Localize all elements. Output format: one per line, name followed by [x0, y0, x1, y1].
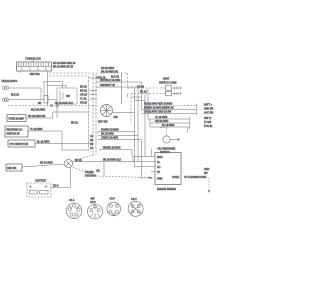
svg-text:BK 18: BK 18 — [80, 86, 87, 89]
relay box C — [8, 140, 35, 147]
svg-text:BK 16 AWG BK 18: BK 16 AWG BK 18 — [53, 66, 74, 69]
relay box B — [5, 126, 28, 137]
svg-text:TO CHASSIS HARN: TO CHASSIS HARN — [184, 176, 206, 179]
bus wire 5 — [150, 121, 190, 125]
svg-text:AMP 30A: AMP 30A — [30, 73, 41, 76]
splice bubbles — [50, 104, 58, 106]
svg-text:BATT +: BATT + — [204, 104, 213, 107]
svg-text:ST: ST — [157, 171, 161, 174]
svg-text:OR/BK 18 AWG: OR/BK 18 AWG — [101, 137, 118, 140]
svg-text:GND BK: GND BK — [7, 167, 17, 170]
marks below key switch — [98, 121, 108, 124]
right trunk vertical x134.5 — [134, 89, 136, 167]
label ground stud — [85, 171, 96, 178]
right trunk vertical x148 — [147, 89, 149, 120]
svg-text:FUSE BLOCK: FUSE BLOCK — [26, 58, 42, 61]
label ground wire — [40, 162, 53, 165]
trunk drop to ground — [72, 155, 94, 161]
label wire box C — [37, 141, 50, 144]
label wire C seat — [137, 86, 147, 94]
svg-text:RD 18: RD 18 — [80, 90, 87, 93]
wire box C — [35, 143, 93, 145]
mid wire 3 — [98, 140, 142, 178]
U1 pin 5 dashed — [140, 177, 153, 179]
svg-text:C1 A: C1 A — [69, 199, 75, 202]
connector C3 — [107, 202, 121, 216]
mid wire 2 — [98, 135, 138, 137]
bus wire 1 — [145, 104, 197, 108]
interlock relay K1 — [44, 96, 48, 104]
U1 pin 2 — [138, 161, 161, 164]
U1 pin 4 — [151, 171, 161, 174]
svg-text:AC: AC — [157, 166, 161, 169]
svg-text:BL 18 AWG: BL 18 AWG — [37, 141, 50, 144]
U1 internal label — [172, 176, 179, 179]
headlights label — [2, 80, 18, 83]
U1 top hook — [151, 149, 153, 157]
svg-text:OR 18: OR 18 — [80, 94, 88, 97]
wire from J1 down — [47, 71, 49, 106]
dashed ground branch — [73, 167, 150, 178]
svg-text:KIT: KIT — [204, 172, 208, 175]
svg-text:REVERSE CA: REVERSE CA — [7, 129, 23, 132]
bus 6 stub down — [187, 127, 189, 133]
svg-text:MAG: MAG — [157, 156, 163, 159]
svg-text:CODE: CODE — [172, 176, 179, 179]
trunk pin labels upper — [80, 86, 88, 105]
label battery — [36, 180, 47, 183]
svg-text:RD/WH 18 AWG: RD/WH 18 AWG — [101, 129, 119, 132]
label bus 3 — [144, 111, 172, 114]
label oil pressure switch — [158, 148, 176, 155]
fuse block connector J1 — [17, 59, 52, 73]
seat switch connector P2 — [166, 91, 182, 96]
svg-text:BK 16 AWG RD: BK 16 AWG RD — [101, 70, 118, 73]
svg-text:SWITCH 2P: SWITCH 2P — [7, 133, 21, 136]
wire hook lower — [48, 86, 67, 89]
svg-text:YL 18: YL 18 — [80, 98, 87, 101]
right trunk vertical x145 — [144, 94, 146, 157]
wire lamp L1 — [9, 87, 41, 89]
svg-text:BK: BK — [38, 102, 42, 105]
svg-text:ACC RD: ACC RD — [204, 112, 214, 115]
svg-text:BK 18 AWG: BK 18 AWG — [101, 133, 114, 136]
label under U1 — [157, 188, 176, 191]
label bus 5 — [155, 120, 168, 123]
wire box B — [28, 131, 89, 150]
harness jog vertical — [56, 106, 58, 119]
svg-text:BK 18: BK 18 — [71, 122, 78, 125]
wire box A — [26, 112, 89, 118]
label under wire A — [97, 76, 120, 80]
svg-text:BLK 18: BLK 18 — [11, 93, 20, 96]
svg-text:SW YL: SW YL — [204, 117, 212, 120]
svg-text:WH/BK 18 AWG: WH/BK 18 AWG — [103, 147, 121, 150]
label wire box B — [30, 128, 43, 131]
svg-text:PTO SWITCH 18: PTO SWITCH 18 — [10, 143, 29, 146]
label bus 4 — [155, 116, 168, 119]
label wire box A — [28, 115, 45, 118]
right margin labels — [204, 104, 214, 129]
svg-text:BK 16: BK 16 — [75, 159, 82, 162]
svg-text:RD 16 AWG RD: RD 16 AWG RD — [28, 115, 45, 118]
wire E — [96, 81, 142, 83]
svg-text:RD 6: RD 6 — [53, 184, 59, 187]
label dashed branch — [96, 170, 101, 173]
harness trunk vertical 1 — [88, 76, 90, 150]
svg-text:CN 3: CN 3 — [90, 201, 96, 204]
label wire A — [101, 67, 118, 74]
svg-text:BK/WH 16 AWG BK/WH 16: BK/WH 16 AWG BK/WH 16 — [144, 107, 174, 110]
label box D — [6, 164, 22, 171]
connector C1 — [66, 203, 82, 219]
bus wire 6 — [150, 119, 190, 129]
battery B1 — [27, 183, 51, 197]
label right of J1 — [53, 62, 76, 69]
label mid wire 4 — [103, 147, 121, 150]
label mid wire 1 — [101, 129, 119, 132]
svg-text:SW: SW — [66, 95, 71, 98]
wire relay to module — [48, 99, 57, 101]
label connector C3 — [110, 198, 116, 201]
wire lamp L2 — [9, 99, 44, 101]
oil branch vertical — [103, 162, 105, 177]
right trunk vertical x138 — [137, 87, 139, 162]
wire ground to U1 — [73, 159, 138, 162]
label key switch — [114, 116, 119, 119]
wire F — [96, 86, 138, 88]
harness trunk vertical 3 — [95, 74, 97, 155]
wire A dashed (accessory feed) — [49, 73, 166, 89]
svg-text:4WD: 4WD — [204, 168, 210, 171]
label mid wire 2 — [101, 133, 114, 136]
svg-text:GN 18 AWG: GN 18 AWG — [155, 120, 168, 123]
lamp L2 — [2, 98, 8, 102]
trunk stubs — [89, 78, 97, 99]
ground wire from box D — [22, 164, 64, 167]
svg-text:GN 18: GN 18 — [80, 102, 88, 105]
label J1 above — [26, 58, 42, 61]
trunk jog ticks — [128, 94, 146, 101]
engine control box U1 — [155, 153, 181, 185]
svg-text:OR 18 AWG ORG 18 AW: OR 18 AWG ORG 18 AW — [144, 111, 172, 114]
mid wire 1 — [98, 132, 135, 135]
svg-text:SWITCH CONN: SWITCH CONN — [159, 81, 177, 84]
svg-text:GROUND: GROUND — [85, 175, 96, 178]
svg-text:YL 18 AWG: YL 18 AWG — [30, 128, 43, 131]
trunk pin labels lower — [90, 135, 94, 150]
svg-text:YL 18 AWG: YL 18 AWG — [155, 116, 168, 119]
svg-text:BK 18: BK 18 — [140, 91, 147, 94]
label lamp wires — [11, 93, 20, 96]
svg-text:BK 16 AWG: BK 16 AWG — [40, 162, 53, 165]
down arrow right — [208, 178, 210, 191]
U1 pin 5 arrow — [151, 177, 163, 181]
label connector C1 — [69, 199, 75, 202]
wire B vertical — [121, 73, 123, 104]
dashed branch arrow — [149, 176, 152, 178]
label wire D — [31, 102, 73, 112]
svg-text:GND: GND — [157, 178, 163, 181]
lamp L1 — [2, 86, 8, 90]
label bus 2 — [144, 107, 174, 110]
oil pressure switch S1 — [163, 136, 179, 143]
label bus 1 — [144, 103, 173, 106]
label mid wire 3 — [101, 137, 118, 140]
label connector C2 — [90, 198, 96, 205]
label below J1 — [30, 73, 41, 76]
svg-text:BLK 16 AWG: BLK 16 AWG — [31, 109, 45, 112]
dashed wire D horizontal — [8, 105, 96, 107]
label bus 6 — [162, 124, 175, 127]
label wire ground to U1 — [103, 159, 121, 162]
svg-text:SEAT: SEAT — [163, 78, 170, 81]
svg-text:ENGINE WIRING: ENGINE WIRING — [157, 188, 176, 191]
label battery cable — [53, 184, 59, 187]
svg-text:PTO BL: PTO BL — [204, 125, 213, 128]
key switch KS — [101, 105, 113, 117]
ignition module inner marks — [60, 91, 71, 101]
svg-text:BL 18 AWG: BL 18 AWG — [162, 124, 175, 127]
svg-text:C4 H: C4 H — [131, 198, 137, 201]
wire lamp join — [40, 88, 42, 100]
label harness jog — [71, 122, 78, 125]
ground stud G1 — [64, 159, 72, 167]
mid wire 4 — [99, 150, 132, 157]
connector C4 — [128, 201, 143, 216]
note right upper — [204, 168, 210, 175]
svg-text:RD 16 AWG: RD 16 AWG — [101, 67, 114, 70]
wire key switch right — [113, 112, 135, 114]
bus wire 2 — [142, 108, 198, 112]
connector C2 — [88, 204, 103, 219]
label splice — [38, 102, 42, 105]
down arrowhead — [208, 190, 210, 193]
svg-text:60A: 60A — [114, 116, 119, 119]
label wire E — [100, 79, 120, 82]
svg-text:KEY SW: KEY SW — [98, 121, 108, 124]
svg-text:RD 16 AWG RED 16 AWG: RD 16 AWG RED 16 AWG — [144, 103, 173, 106]
label connector C4 — [131, 198, 137, 201]
oil pressure switch dashed lead — [160, 128, 167, 136]
right trunk vertical x141.5 — [141, 82, 143, 110]
svg-text:BK 16 AWG BLK: BK 16 AWG BLK — [55, 102, 73, 105]
svg-text:B+: B+ — [157, 161, 161, 164]
U1 pin 1 — [133, 156, 163, 162]
relay box A — [7, 115, 26, 122]
wire A2 dashed pair — [49, 75, 89, 77]
svg-text:HEADLIGHTS: HEADLIGHTS — [2, 80, 18, 83]
svg-text:GRN/WHT 16: GRN/WHT 16 — [100, 84, 116, 87]
svg-text:GND BK: GND BK — [204, 108, 214, 111]
battery cable — [51, 167, 71, 187]
bus wire 4 — [148, 117, 190, 121]
harness trunk vertical 2 — [92, 74, 94, 155]
svg-text:C3 P: C3 P — [110, 198, 116, 201]
bus wire 3 — [142, 112, 198, 116]
svg-text:FUSE 20 AMP: FUSE 20 AMP — [9, 118, 25, 121]
wire hook upper — [44, 82, 63, 96]
seat switch connector P1 — [166, 86, 182, 91]
wire C dashed to seat connector — [131, 94, 166, 124]
ignition switch module — [57, 88, 77, 104]
svg-text:WHT/BLK 16 AWG: WHT/BLK 16 AWG — [100, 79, 120, 82]
svg-text:BATTERY: BATTERY — [36, 180, 47, 183]
svg-text:OIL: OIL — [96, 170, 101, 173]
seat switch label — [159, 78, 177, 85]
U1 pin 3 — [135, 166, 161, 169]
label wire F — [100, 84, 116, 87]
label right of U1 — [184, 176, 206, 179]
svg-text:BK 16 AWG BLK: BK 16 AWG BLK — [103, 159, 121, 162]
svg-text:LT GN: LT GN — [204, 121, 211, 124]
